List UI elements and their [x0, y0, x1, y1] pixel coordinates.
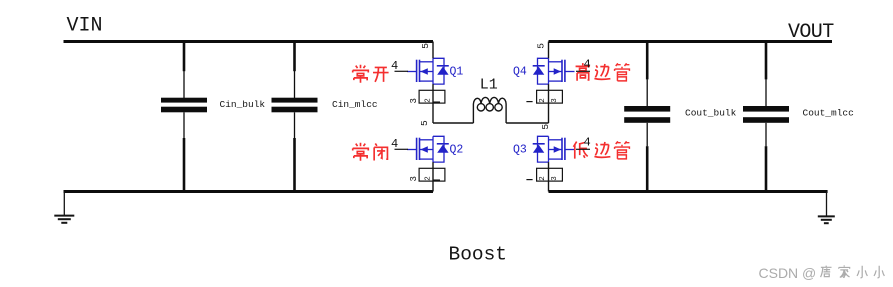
- svg-text:3: 3: [551, 176, 559, 181]
- svg-text:3: 3: [409, 98, 419, 103]
- svg-text:CSDN @: CSDN @: [759, 265, 817, 281]
- annotation gao-bian-guan red: [576, 63, 630, 81]
- svg-text:Q1: Q1: [450, 66, 464, 79]
- wire Q4 source to phase: [548, 84, 550, 123]
- wire Q1 source to phase: [432, 84, 434, 123]
- wire Q2 source to gnd: [432, 162, 434, 191]
- capacitor Cin_mlcc: [272, 42, 318, 192]
- annotation chang-bi red: [353, 143, 388, 161]
- svg-text:Cin_bulk: Cin_bulk: [220, 99, 266, 110]
- svg-text:Boost: Boost: [449, 244, 508, 266]
- pin 1 tiny Q2 box: [433, 179, 441, 181]
- svg-text:Q2: Q2: [450, 144, 464, 157]
- transistor Q4: [533, 58, 575, 84]
- wire GND bottom rail left: [64, 190, 434, 193]
- wire Q4 drain: [548, 42, 550, 59]
- capacitor Cout_mlcc: [743, 42, 789, 192]
- package box Q1: [419, 90, 445, 103]
- svg-text:5: 5: [540, 124, 551, 130]
- svg-text:2: 2: [539, 98, 547, 103]
- pin 1 Q3 box: [526, 179, 532, 181]
- capacitor Cin_bulk: [161, 42, 207, 192]
- svg-text:Cout_mlcc: Cout_mlcc: [803, 108, 855, 119]
- svg-text:VIN: VIN: [67, 15, 103, 38]
- inductor L1: [473, 97, 506, 123]
- wire GND bottom rail right: [549, 190, 828, 193]
- wire Q4 gate: [576, 70, 590, 72]
- svg-text:4: 4: [584, 135, 591, 149]
- svg-text:3: 3: [409, 176, 419, 181]
- svg-text:5: 5: [420, 43, 431, 49]
- svg-text:2: 2: [539, 176, 547, 181]
- svg-text:Cin_mlcc: Cin_mlcc: [332, 99, 378, 110]
- package box Q2: [419, 168, 445, 181]
- wire Q2 gate: [395, 148, 409, 150]
- svg-text:L1: L1: [480, 76, 498, 93]
- svg-text:Q4: Q4: [513, 66, 527, 79]
- svg-text:3: 3: [551, 98, 559, 103]
- package box Q3: [537, 168, 563, 181]
- ground left: [54, 192, 74, 223]
- wire VOUT top rail right: [549, 40, 833, 43]
- annotation chang-kai red: [353, 65, 389, 83]
- svg-text:4: 4: [584, 57, 591, 71]
- svg-text:5: 5: [419, 120, 430, 126]
- wire phase node right: [506, 122, 548, 124]
- package box Q4: [537, 90, 563, 103]
- svg-text:Q3: Q3: [513, 144, 527, 157]
- wire Q1 gate: [395, 70, 409, 72]
- svg-text:Cout_bulk: Cout_bulk: [685, 108, 737, 119]
- pin 1 tiny Q1 box: [433, 101, 441, 103]
- svg-text:2: 2: [425, 176, 433, 181]
- wire phase node left: [433, 122, 473, 124]
- ground right: [818, 192, 835, 224]
- wire Q3 source to gnd: [548, 162, 550, 191]
- wire Q1 drain: [432, 42, 434, 59]
- wire VIN top rail left: [64, 40, 434, 43]
- transistor Q3: [533, 136, 575, 162]
- wire Q3 gate: [576, 148, 590, 150]
- pin 1 Q4 box: [526, 101, 532, 103]
- capacitor Cout_bulk: [624, 42, 670, 192]
- transistor Q1: [407, 58, 449, 84]
- annotation di-bian-guan red: [573, 141, 629, 158]
- transistor Q2: [407, 136, 449, 162]
- svg-text:2: 2: [425, 98, 433, 103]
- svg-text:5: 5: [535, 43, 546, 49]
